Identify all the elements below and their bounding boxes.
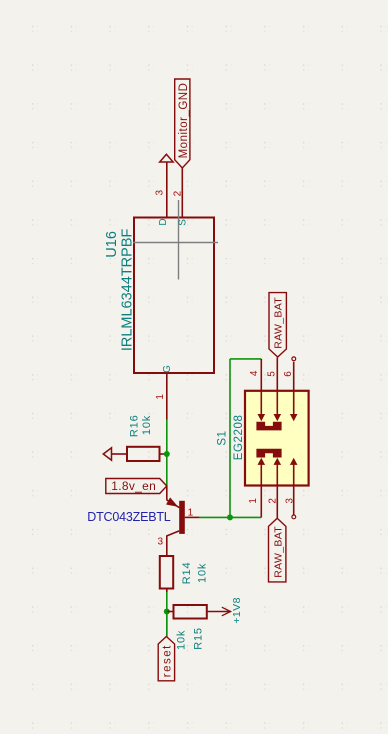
hierarchical label Monitor_GND — [175, 79, 190, 168]
pin 3 — [290, 458, 298, 465]
collector lead — [185, 516, 200, 518]
base arrow — [167, 498, 177, 506]
svg-text:U16: U16 — [104, 231, 120, 258]
svg-text:2: 2 — [267, 498, 278, 504]
resistor R14 — [160, 556, 209, 592]
svg-text:IRLML6344TRPBF: IRLML6344TRPBF — [120, 229, 136, 352]
pin 6 — [293, 362, 295, 415]
power flag arrow left of R16 — [103, 448, 111, 460]
svg-text:RAW_BAT: RAW_BAT — [273, 297, 285, 349]
pin 2 — [274, 458, 282, 465]
contact block top — [256, 422, 281, 431]
junction J1 — [164, 451, 170, 457]
contact block bottom — [256, 449, 281, 458]
pin G lead — [166, 373, 168, 420]
wire J2 up — [229, 359, 231, 518]
wire J2 right to S1 pin1 — [230, 516, 261, 518]
svg-text:10k: 10k — [141, 415, 153, 435]
svg-text:1.8v_en: 1.8v_en — [111, 479, 156, 493]
svg-text:10k: 10k — [175, 630, 187, 650]
svg-text:G: G — [162, 365, 173, 373]
svg-text:D: D — [158, 218, 169, 225]
hierarchical label RAW_BAT top — [269, 293, 286, 357]
pin 5 — [276, 358, 278, 416]
transistor Q DTC043ZEBTL — [87, 486, 199, 556]
wire top to S1 pin4 — [230, 358, 261, 360]
wire R14 to J3 — [166, 592, 168, 636]
wire collector to junction J2 — [200, 516, 230, 518]
svg-text:3: 3 — [158, 536, 164, 547]
wire flag to R16 — [112, 453, 128, 455]
body — [245, 391, 309, 486]
switch S1 EG2208 — [216, 357, 308, 519]
svg-text:DTC043ZEBTL: DTC043ZEBTL — [87, 510, 170, 524]
svg-text:Monitor_GND: Monitor_GND — [178, 83, 190, 159]
svg-text:R14: R14 — [181, 562, 193, 585]
svg-text:10k: 10k — [196, 563, 208, 583]
junction J3 — [164, 609, 170, 615]
base lead — [166, 486, 168, 500]
svg-text:1: 1 — [155, 394, 166, 400]
global label reset — [158, 612, 174, 681]
wire label to pin2 — [181, 168, 183, 218]
wire pin3 to flag — [166, 162, 168, 218]
svg-text:1: 1 — [188, 507, 194, 518]
svg-text:EG2208: EG2208 — [233, 414, 245, 460]
resistor R16 — [127, 415, 167, 461]
svg-text:6: 6 — [283, 371, 294, 377]
mosfet U16 body — [134, 218, 214, 374]
power symbol +1V8 — [207, 597, 243, 623]
resistor R15 — [167, 605, 207, 650]
svg-text:reset: reset — [162, 644, 174, 677]
graphic line vertical grey — [178, 200, 180, 280]
wire gate net down — [166, 420, 168, 487]
svg-text:RAW_BAT: RAW_BAT — [272, 526, 284, 578]
svg-text:+1V8: +1V8 — [231, 597, 243, 623]
graphic line horizontal grey — [133, 242, 218, 244]
base bar — [179, 501, 185, 534]
svg-text:R15: R15 — [193, 627, 205, 650]
svg-text:R16: R16 — [129, 415, 141, 438]
svg-text:4: 4 — [249, 370, 260, 376]
junction J2 — [227, 514, 233, 520]
emitter lead — [167, 531, 179, 556]
svg-text:S: S — [177, 219, 188, 226]
hierarchical label RAW_BAT bottom — [269, 518, 286, 582]
svg-text:3: 3 — [284, 498, 295, 504]
svg-text:5: 5 — [266, 371, 277, 377]
svg-text:2: 2 — [172, 190, 183, 196]
svg-text:S1: S1 — [216, 430, 228, 445]
pin 4 — [260, 359, 262, 415]
global label 1.8v_en — [106, 479, 167, 494]
pin 1 — [258, 458, 266, 465]
svg-text:1: 1 — [248, 498, 259, 504]
svg-text:3: 3 — [155, 189, 166, 195]
power flag arrow on pin 3 net — [160, 154, 173, 162]
